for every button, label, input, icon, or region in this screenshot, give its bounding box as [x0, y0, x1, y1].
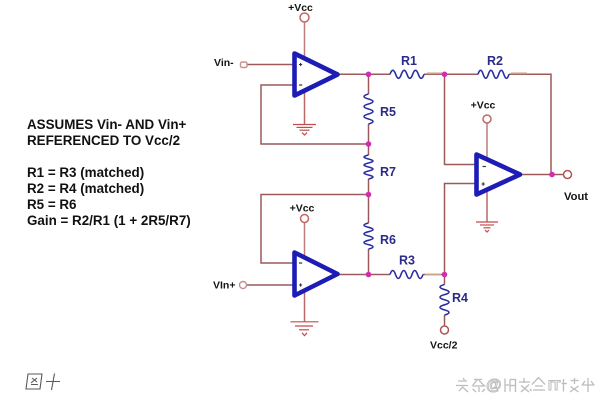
svg-text:R1 = R3 (matched): R1 = R3 (matched): [27, 165, 144, 180]
wire U3 non-inverting input to node C: [445, 184, 477, 275]
svg-text:Vout: Vout: [564, 191, 588, 203]
resistor R4: [440, 285, 449, 315]
figure caption 图十: [26, 374, 60, 391]
svg-text:R3: R3: [399, 254, 415, 268]
svg-text:+Vcc: +Vcc: [290, 203, 315, 215]
svg-text:R4: R4: [452, 291, 468, 305]
svg-text:R5 = R6: R5 = R6: [27, 197, 77, 212]
junction R5/R7: [366, 141, 372, 147]
op-amp U2: [295, 253, 338, 296]
svg-text:R1: R1: [401, 54, 417, 68]
power terminal +Vcc (U1): [300, 13, 309, 22]
wire node A to R2 via node B: [424, 73, 478, 75]
wire R3 to node C: [423, 274, 445, 276]
wire Vin+ to U2 input: [247, 284, 293, 286]
svg-text:@: @: [486, 377, 502, 394]
wire R6 to node D: [368, 249, 370, 275]
power terminal +Vcc (U3): [483, 115, 491, 123]
ground (U3): [476, 222, 498, 232]
junction Vout node: [549, 172, 555, 178]
resistor R2: [478, 70, 509, 78]
svg-text:ASSUMES Vin- AND Vin+: ASSUMES Vin- AND Vin+: [27, 117, 187, 132]
wire U3 output to Vout: [521, 174, 564, 176]
junction node A: [366, 72, 372, 78]
svg-text:R5: R5: [380, 105, 396, 119]
wire R1 right lead (tan): [427, 72, 442, 74]
wire +Vcc stub to U3: [486, 123, 488, 158]
wire node B down to U3 inverting input: [445, 74, 477, 164]
svg-text:R6: R6: [380, 233, 396, 247]
wire +Vcc stub to U1: [304, 22, 306, 59]
terminal Vout: [564, 171, 572, 179]
ground (U1): [293, 125, 316, 136]
terminal Vin+: [240, 282, 247, 289]
wire R7 to R6: [368, 179, 370, 223]
wire +Vcc stub to U2: [304, 223, 306, 259]
wire U1 ground stub: [304, 90, 306, 124]
wire U2 feedback loop: [261, 195, 369, 264]
svg-text:+Vcc: +Vcc: [471, 100, 496, 112]
svg-text:VIn+: VIn+: [213, 280, 235, 292]
wire R4 to Vcc/2 terminal: [444, 315, 446, 326]
resistor R7: [364, 155, 373, 179]
svg-text:Vin-: Vin-: [214, 57, 234, 69]
power terminal +Vcc (U2): [301, 215, 309, 223]
resistor R3: [390, 271, 423, 279]
svg-text:R2: R2: [487, 54, 503, 68]
wire Vin- to U1 input: [247, 64, 293, 66]
junction R7/R6: [366, 192, 372, 198]
wire R3 right lead (tan): [425, 274, 441, 276]
annotation text block: [27, 117, 191, 228]
wire U2 ground stub: [304, 292, 306, 322]
terminal Vin-: [241, 62, 248, 68]
resistor R1: [390, 70, 424, 78]
junction node C: [442, 272, 448, 278]
wire R5 to R7: [368, 124, 370, 155]
wire R2 right lead (tan): [511, 72, 527, 74]
resistor R5: [364, 94, 373, 124]
svg-text:Vcc/2: Vcc/2: [430, 340, 458, 352]
wire U2 output to node D: [338, 274, 390, 276]
svg-text:REFERENCED TO Vcc/2: REFERENCED TO Vcc/2: [27, 133, 180, 148]
svg-text:R7: R7: [380, 165, 396, 179]
wire node C to R4: [444, 275, 446, 285]
junction node D: [366, 272, 372, 278]
wire U1 feedback loop: [261, 85, 369, 144]
svg-text:+Vcc: +Vcc: [288, 2, 313, 14]
svg-text:Gain = R2/R1 (1 + 2R5/R7): Gain = R2/R1 (1 + 2R5/R7): [27, 213, 191, 228]
terminal Vcc/2: [441, 326, 449, 334]
op-amp U1: [295, 54, 338, 96]
junction node B: [442, 72, 448, 78]
watermark 头条 @卧龙会IT技术: [456, 378, 595, 393]
wire U3 ground stub: [486, 191, 488, 222]
ground (U2): [291, 322, 319, 336]
op-amp U3: [477, 155, 521, 195]
svg-text:IT: IT: [548, 377, 561, 393]
wire R2 to feedback corner and down to Vout node: [509, 74, 551, 174]
wire U1 output to node A: [338, 73, 390, 75]
wire chain node A to R5: [368, 74, 370, 94]
svg-text:R2 = R4 (matched): R2 = R4 (matched): [27, 181, 144, 196]
resistor R6: [364, 223, 373, 249]
